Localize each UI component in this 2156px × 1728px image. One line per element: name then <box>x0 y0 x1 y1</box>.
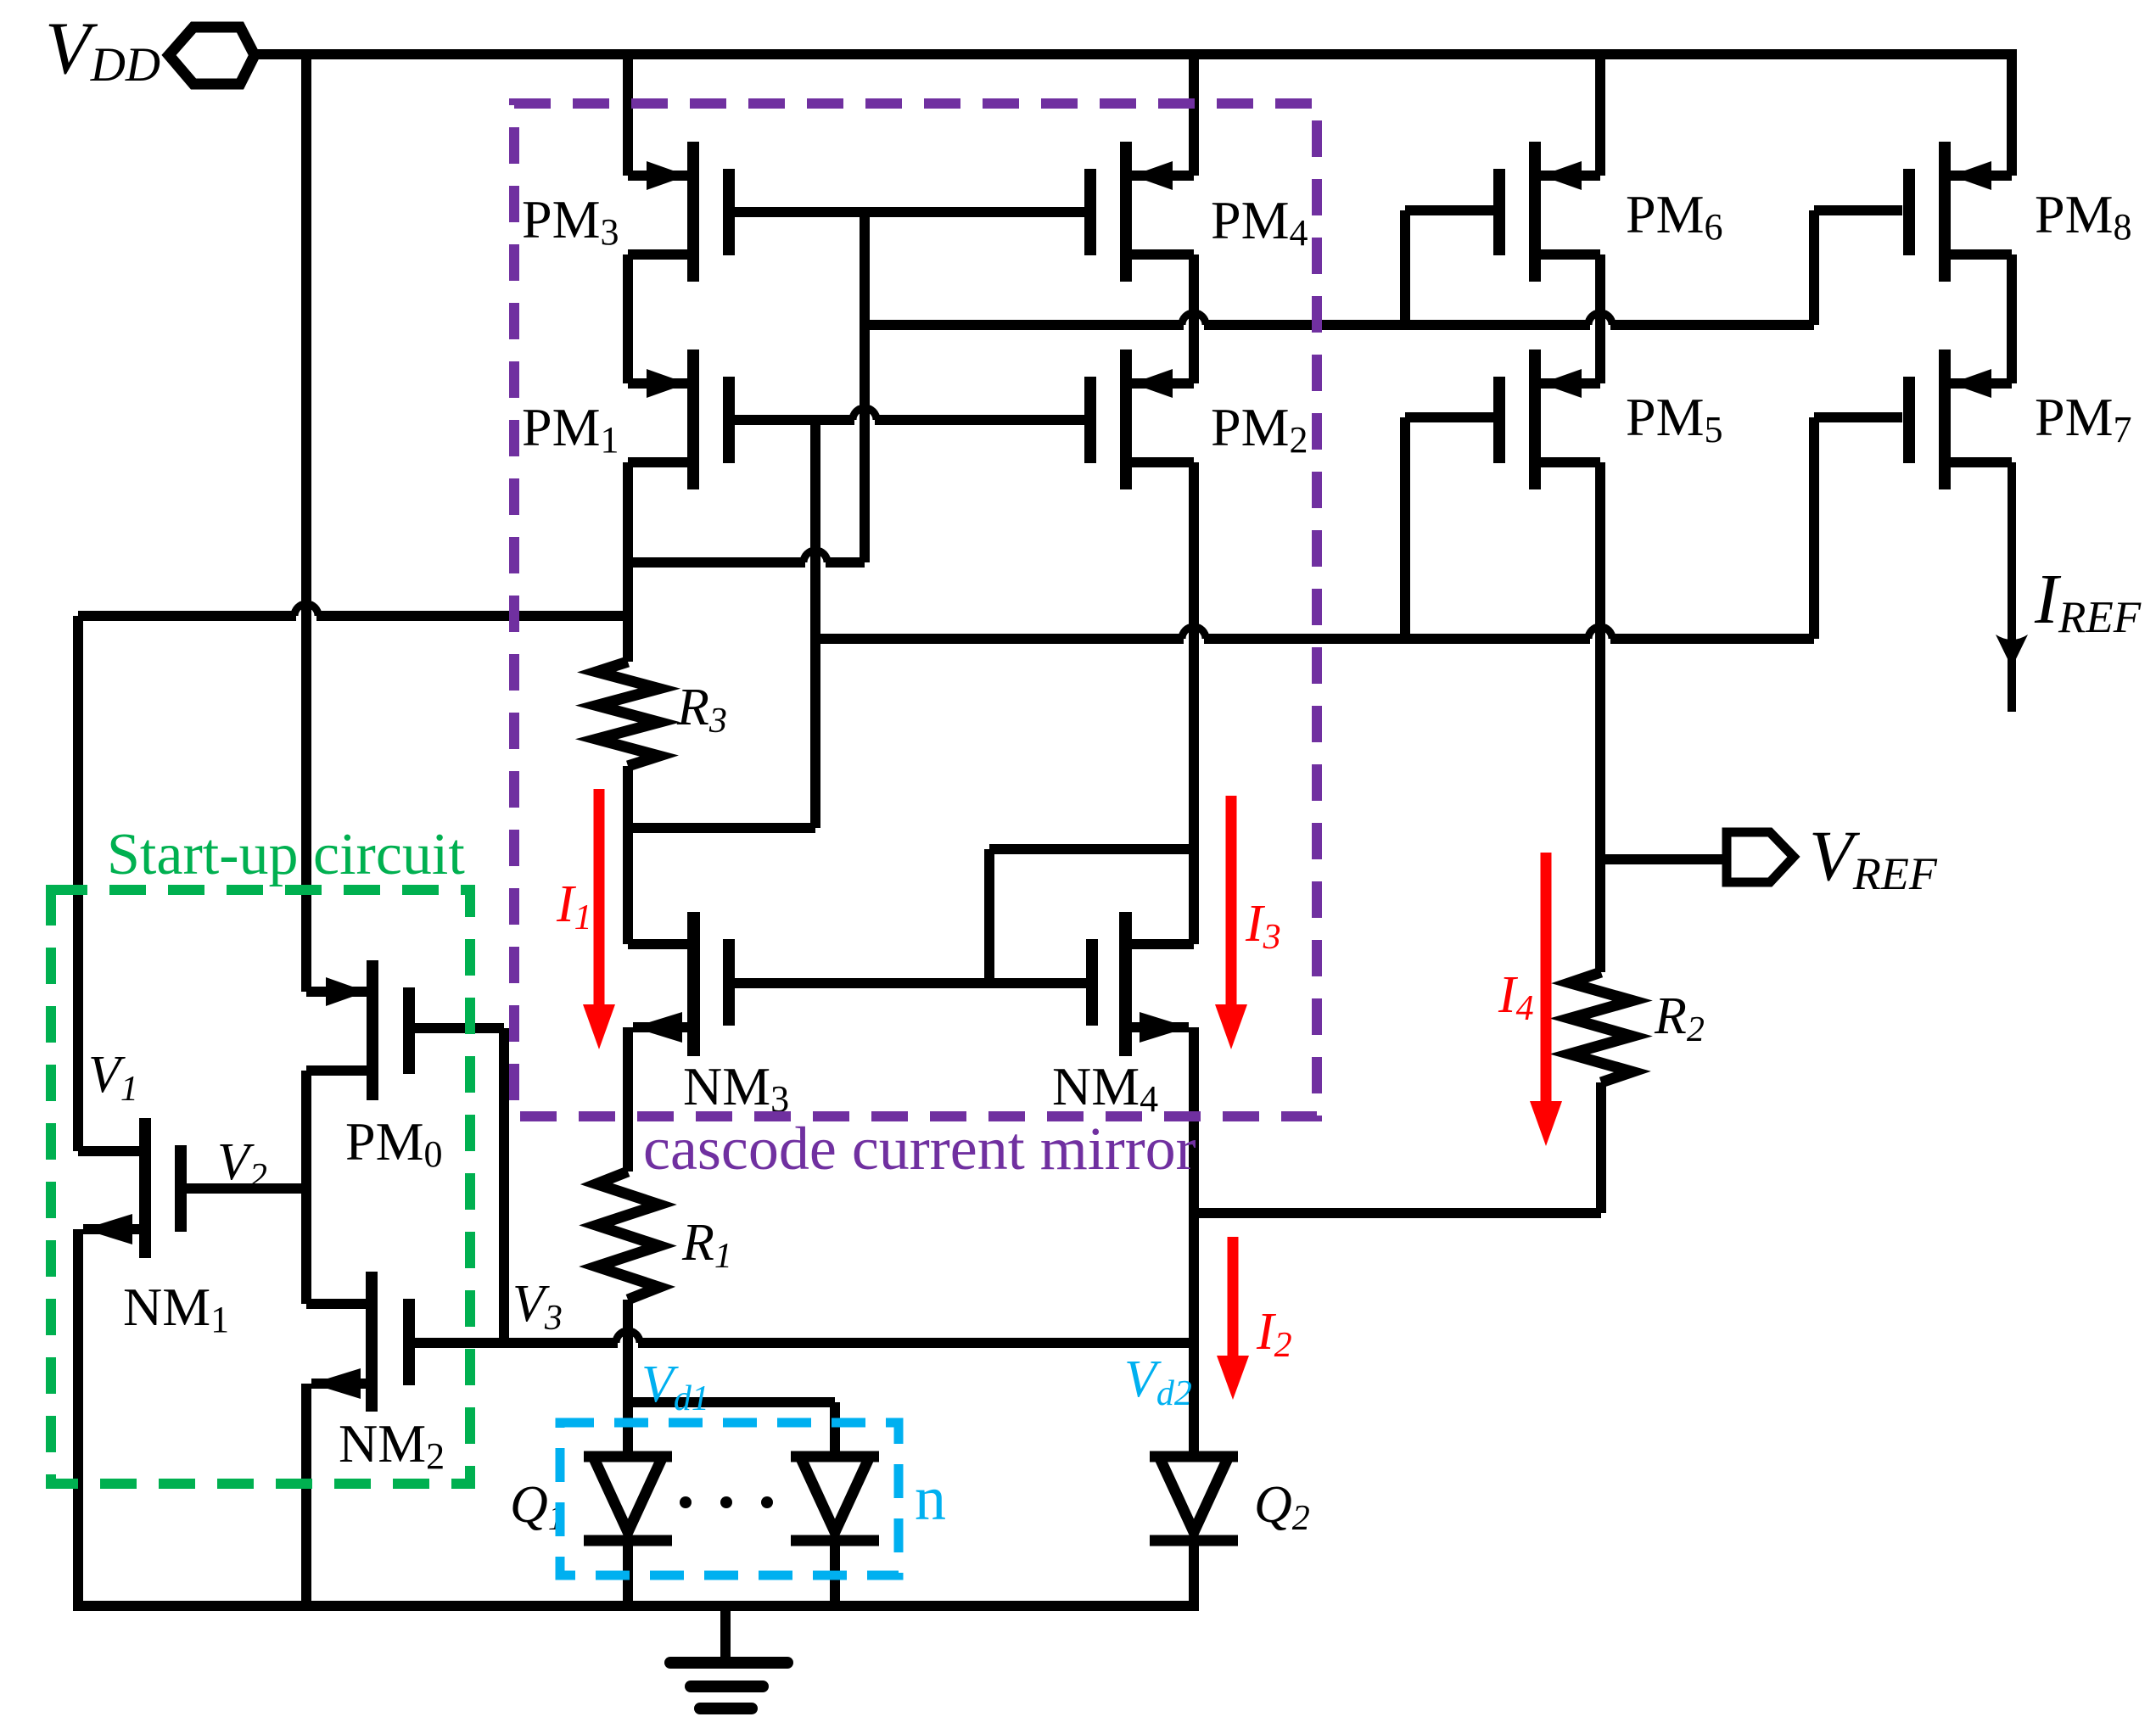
dashed box: start-up circuit <box>51 890 470 1484</box>
wire PM1 drain down to node A <box>623 462 633 562</box>
wire PM6 drain to PM5 source <box>1595 254 1605 383</box>
wire node V2: PM0 drain to NM2 drain <box>301 1071 311 1304</box>
label PM2 <box>1211 397 1308 461</box>
transistor PM1 (PMOS) <box>628 350 735 489</box>
wire PM3-PM4 gate wire <box>735 207 1086 217</box>
transistor NM1 (NMOS) with leads <box>78 1118 187 1258</box>
label I1 <box>556 875 592 937</box>
node V1 label <box>88 1046 138 1109</box>
label NM4 <box>1052 1056 1158 1120</box>
node Vd1 label <box>641 1356 709 1418</box>
label PM3 <box>522 189 619 253</box>
resistor R3 <box>596 662 659 766</box>
wire PM7 drain down (IREF output) with arrowhead <box>1996 462 2028 712</box>
wire PM7 gate bracket <box>1814 417 1902 639</box>
label NM3 <box>683 1056 789 1120</box>
svg-text:n: n <box>915 1464 946 1534</box>
wire R1 bottom to Q1 anode (node Vd1) <box>623 1300 633 1457</box>
wire PM8 drain to PM7 source <box>2007 254 2017 383</box>
label PM7 <box>2035 387 2132 450</box>
wire PM4 drain to PM2 source <box>1189 254 1199 383</box>
wire NM3-NM4 gate wire <box>735 978 1086 988</box>
node V2 label <box>217 1133 267 1196</box>
label NM2 <box>339 1413 445 1477</box>
transistor PM2 (PMOS) <box>1084 350 1194 489</box>
transistor PM4 (PMOS) <box>1084 142 1194 282</box>
resistor R2 <box>1570 972 1632 1082</box>
wire PM3 drain to PM1 source <box>623 254 633 383</box>
wire VREF tap <box>1600 854 1727 864</box>
wire node Vd1 to second Q1 diode <box>628 1402 835 1457</box>
wire VDD rail right corner drop to PM8 source <box>2007 49 2017 176</box>
wire PM6 gate bracket <box>1405 210 1493 325</box>
wire NM4 source to Q2 anode (node Vd2) <box>1189 1027 1199 1457</box>
label I4 <box>1498 966 1534 1028</box>
diode Q1 (n-th) <box>791 1457 879 1606</box>
wire PM0 gate vertical down to V3 wire <box>499 1028 509 1343</box>
label R3 <box>676 679 727 741</box>
label NM1 <box>123 1277 229 1340</box>
svg-text:Start-up circuit: Start-up circuit <box>107 822 465 887</box>
wire bias rail B to PM5/PM7 gate brackets (hops drain columns) <box>815 627 1814 639</box>
transistor PM0 (PMOS) with leads <box>306 960 415 1100</box>
transistor PM5 (PMOS) <box>1493 350 1600 489</box>
wire PM1 drain node to bias rail A (hops over B) <box>628 551 865 562</box>
label PM8 <box>2035 184 2132 248</box>
label PM5 <box>1626 387 1723 450</box>
wire ground rail <box>73 1601 1199 1611</box>
diode Q2 <box>1150 1457 1238 1606</box>
wire node V1 to NM1 drain branch (hops VDD bus) <box>78 604 628 616</box>
transistor PM7 (PMOS) <box>1903 350 2012 489</box>
wire vertical B: PM1/PM2 gate rail tap <box>810 420 820 828</box>
wire PM2 drain to NM4 drain (node D2) <box>1189 462 1199 944</box>
wire VDD drop to PM6 source <box>1595 54 1605 176</box>
wire R3 bottom to NM3 drain <box>623 766 633 944</box>
wire node A down to R3 top <box>623 562 633 662</box>
label VREF <box>1809 816 1938 899</box>
wire VDD drop to PM0 source (left bus) <box>301 54 311 992</box>
wire PM5 drain down to R2 top (VREF node) <box>1595 462 1605 972</box>
label I2 <box>1256 1303 1292 1365</box>
svg-text:cascode current mirror: cascode current mirror <box>643 1115 1196 1183</box>
wire VDD top rail <box>255 49 2012 59</box>
wire R2 bottom lead <box>1596 1082 1606 1213</box>
wire VDD drop to PM4 source <box>1189 54 1199 176</box>
node Vd2 label <box>1124 1351 1192 1413</box>
transistor PM3 (PMOS) <box>628 142 735 282</box>
ground symbol <box>670 1606 787 1708</box>
output terminal VREF (pointed flag) <box>1727 832 1794 882</box>
label VDD <box>45 8 160 92</box>
resistor R1 <box>596 1172 659 1300</box>
label Q1 <box>510 1476 566 1538</box>
wire vertical A: PM3/PM4 gate rail tap <box>860 212 870 562</box>
label Q2 <box>1254 1476 1310 1538</box>
dashed box: n parallel diodes Q1 <box>560 1423 899 1575</box>
wire NM1 gate to node V2 <box>187 1183 306 1194</box>
transistor PM8 (PMOS) <box>1903 142 2012 282</box>
current arrow I3 <box>1215 796 1247 1049</box>
wire PM0 gate lead <box>415 1023 504 1033</box>
dashed box: cascode current mirror <box>514 103 1317 1116</box>
wire bias rail A to PM6/PM8 gate brackets (hops drain columns) <box>865 313 1814 325</box>
label R2 <box>1654 987 1705 1049</box>
label I3 <box>1245 895 1281 957</box>
wire NM2 source to ground rail <box>301 1384 311 1606</box>
wire PM5 gate bracket <box>1405 417 1493 639</box>
current arrow I4 <box>1530 853 1562 1146</box>
wire R3-bottom node tie to vertical B <box>628 823 815 833</box>
wire V1 vertical to NM1 drain <box>73 616 83 1151</box>
label PM6 <box>1626 184 1723 248</box>
node V3 label <box>512 1275 563 1338</box>
label IREF <box>2034 560 2142 642</box>
current arrow I2 <box>1217 1237 1249 1400</box>
wire VDD drop to PM3 source <box>623 54 633 176</box>
transistor NM3 (NMOS) with drain and source leads <box>628 912 735 1056</box>
power terminal VDD (hexagon) <box>169 27 255 84</box>
current arrow I1 <box>583 789 615 1049</box>
label PM0 <box>345 1111 443 1175</box>
diode Q1 (first of n) <box>584 1457 672 1606</box>
transistor PM6 (PMOS) <box>1493 142 1600 282</box>
label PM4 <box>1211 190 1308 254</box>
wire node V3: NM2/PM0 gates to Vd2 column (hops R1 bottom lead) <box>415 1331 1194 1343</box>
caption: Start-up circuit <box>107 822 465 887</box>
wire NM1 source vertical to ground rail <box>73 1229 83 1606</box>
wire PM8 gate bracket <box>1814 210 1902 325</box>
wire NM3 source down to R1 top <box>623 1027 633 1172</box>
caption: cascode current mirror <box>643 1115 1196 1183</box>
wire NM4 drain tie to NM3/NM4 gate rail <box>989 849 1194 983</box>
label R1 <box>681 1214 732 1276</box>
ellipsis dots between Q1 diodes <box>680 1496 773 1508</box>
label PM1 <box>522 397 619 461</box>
wire Vd2 node to R2 bottom <box>1194 1208 1601 1218</box>
wire PM1-PM2 gate wire (hops vertical A) <box>735 408 1086 420</box>
label n (multiplicity) <box>915 1464 946 1534</box>
transistor NM4 (NMOS) with drain and source leads <box>1086 912 1194 1056</box>
transistor NM2 (NMOS) with leads <box>306 1272 415 1412</box>
